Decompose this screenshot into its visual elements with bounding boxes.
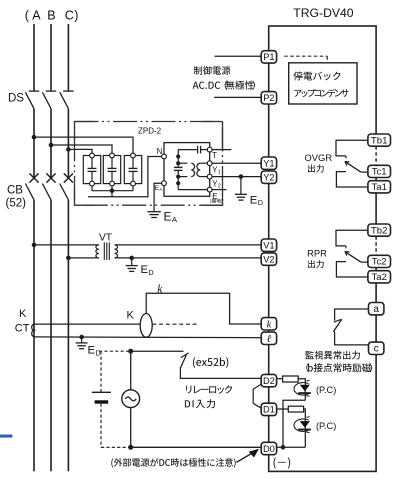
svg-text:(P.C): (P.C): [316, 385, 336, 395]
svg-text:E: E: [212, 192, 217, 201]
svg-text:D0: D0: [263, 444, 275, 454]
svg-text:ZPD-2: ZPD-2: [138, 126, 162, 135]
svg-text:): ): [74, 9, 78, 23]
svg-text:A: A: [172, 215, 178, 224]
svg-text:a: a: [373, 304, 379, 315]
svg-text:DS: DS: [8, 92, 24, 104]
svg-text:V1: V1: [263, 241, 274, 251]
svg-text:Tc1: Tc1: [372, 167, 387, 178]
svg-text:D: D: [95, 348, 100, 357]
svg-text:A: A: [32, 8, 41, 22]
svg-text:k: k: [267, 319, 272, 330]
svg-text:N: N: [157, 147, 163, 156]
svg-text:k: k: [157, 284, 163, 296]
svg-text:D: D: [258, 198, 263, 207]
svg-text:TRG-DV40: TRG-DV40: [293, 6, 353, 20]
svg-text:C: C: [65, 8, 74, 22]
svg-text:(52): (52): [6, 198, 27, 210]
svg-text:B: B: [47, 8, 55, 22]
svg-text:Tb1: Tb1: [371, 135, 388, 146]
svg-text:D: D: [148, 268, 153, 277]
svg-text:Y2: Y2: [263, 173, 274, 183]
svg-text:E: E: [250, 194, 258, 206]
svg-text:E: E: [88, 345, 96, 357]
svg-text:CB: CB: [7, 185, 23, 197]
svg-text:Ta2: Ta2: [371, 272, 386, 283]
svg-text:CT: CT: [15, 323, 30, 335]
svg-text:Ta1: Ta1: [371, 182, 386, 193]
svg-text:V2: V2: [263, 254, 274, 264]
svg-text:D1: D1: [263, 405, 275, 415]
svg-text:1: 1: [218, 170, 221, 176]
svg-text:E: E: [164, 209, 172, 223]
svg-text:D2: D2: [263, 376, 275, 386]
svg-text:Tb2: Tb2: [371, 225, 388, 236]
svg-text:P2: P2: [263, 93, 274, 103]
svg-text:E: E: [141, 264, 149, 276]
svg-text:T: T: [212, 151, 217, 160]
svg-text:c: c: [374, 344, 379, 355]
svg-text:K: K: [19, 308, 27, 320]
svg-text:P1: P1: [263, 52, 274, 62]
svg-text:Tc2: Tc2: [372, 257, 387, 268]
svg-text:K: K: [127, 310, 135, 322]
svg-text:2: 2: [218, 183, 221, 189]
svg-text:VT: VT: [99, 233, 112, 244]
svg-text:OVGR: OVGR: [305, 152, 333, 163]
svg-text:ℓ: ℓ: [267, 334, 272, 345]
svg-text:(P.C): (P.C): [316, 421, 336, 431]
svg-text:RPR: RPR: [307, 247, 327, 258]
svg-text:Y1: Y1: [263, 159, 274, 169]
